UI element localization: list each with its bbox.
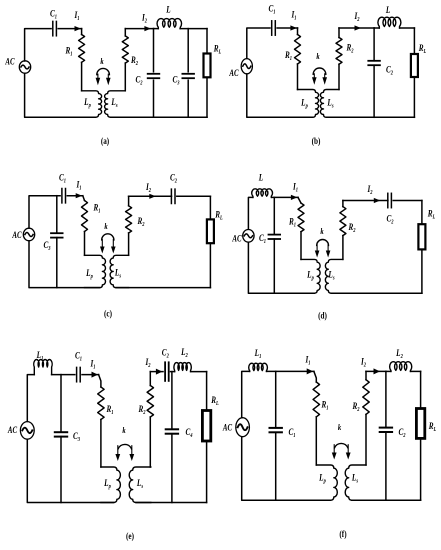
svg-text:k: k xyxy=(104,221,107,231)
wire R2 to C2 with I2 arrow (c) xyxy=(129,195,172,197)
wire C1 to R1 with I1 arrow (e) xyxy=(82,374,99,376)
coupling k (e) xyxy=(118,444,131,448)
circuit (f) xyxy=(222,347,436,539)
wire L1 to C3 node to C1 (e) xyxy=(52,374,75,376)
AC source V1 (c) xyxy=(23,228,34,241)
wire left rail top (b) xyxy=(247,28,270,58)
current arrow I2 (f) xyxy=(374,368,381,374)
current arrow I2 (c) xyxy=(149,194,156,199)
resistor R1 (c) xyxy=(83,196,85,201)
load resistor RL (b) xyxy=(413,28,415,54)
coupling k (d) xyxy=(317,240,329,246)
wire C2 to right rail (d) xyxy=(393,200,422,202)
wire C2 to C4 node (e) xyxy=(171,371,175,373)
resistor R1 (f) xyxy=(314,371,316,382)
current arrow I1 (f) xyxy=(307,368,314,374)
coupling k (f) xyxy=(335,443,348,447)
wire C1 to R1 with I1 arrow (a) xyxy=(58,28,81,30)
wire left rail bottom (e) xyxy=(27,439,113,502)
inductor L1 (f) xyxy=(249,363,268,371)
wire R2 to C2 node with I2 arrow (b) xyxy=(339,27,374,29)
load resistor RL (c) xyxy=(209,196,211,219)
svg-text:k: k xyxy=(338,422,341,432)
capacitor C4 shunt branch (e) xyxy=(171,372,173,430)
wire C2 node to L (a) xyxy=(154,28,159,30)
current arrow I2 (a) xyxy=(144,26,151,31)
wire R2 to C2 with I2 arrow (d) xyxy=(343,200,388,202)
secondary bottom wire (c) xyxy=(116,287,210,289)
wire C1 to R1 with I1 arrow (c) xyxy=(67,195,83,197)
svg-text:AC: AC xyxy=(12,230,23,240)
wire left rail bottom (d) xyxy=(248,242,314,293)
capacitor C1 (c) xyxy=(61,189,63,203)
wire L to C1 node to R1 with I1 arrow (d) xyxy=(272,196,298,198)
wire C2 to right rail (c) xyxy=(177,195,211,197)
resistor R2 (e) xyxy=(149,372,151,386)
svg-text:k: k xyxy=(122,425,125,435)
AC source V1 (d) xyxy=(243,230,254,243)
secondary coil Ls (a) xyxy=(105,91,126,117)
resistor R2 (c) xyxy=(128,196,130,206)
AC source V1 (b) xyxy=(241,59,252,74)
wire left rail top (d) xyxy=(248,197,253,229)
capacitor C3 shunt branch (a) xyxy=(187,29,189,72)
AC source V1 (f) xyxy=(236,418,250,437)
svg-text:AC: AC xyxy=(232,234,243,244)
load resistor RL (d) xyxy=(421,201,423,225)
capacitor C3 shunt branch (e) xyxy=(60,375,62,433)
secondary coil Ls (c) xyxy=(110,255,129,287)
secondary coil Ls (b) xyxy=(320,90,339,118)
inductor L (b) xyxy=(378,17,401,28)
resistor R2 (f) xyxy=(365,371,367,379)
wire left rail bottom (f) xyxy=(242,437,331,500)
circuit (a) xyxy=(5,4,222,146)
capacitor C2 shunt branch (f) xyxy=(385,371,387,427)
inductor L2 (f) xyxy=(390,362,412,372)
current arrow I1 (d) xyxy=(291,195,298,200)
svg-text:k: k xyxy=(316,51,319,61)
svg-text:(b): (b) xyxy=(312,136,321,146)
wire R2 to C2 node with I2 arrow (f) xyxy=(366,370,386,372)
secondary coil Ls (f) xyxy=(345,465,366,500)
load resistor RL (f) xyxy=(420,371,422,408)
svg-text:L: L xyxy=(385,5,390,15)
capacitor C2 (e) xyxy=(164,362,166,381)
secondary bottom wire (d) xyxy=(331,292,422,294)
wire C1 to R1 with I1 arrow (b) xyxy=(277,27,297,29)
secondary bottom wire (e) xyxy=(136,502,207,504)
wire R2 to C2 node with I2 arrow (a) xyxy=(125,28,153,30)
circuit (d) xyxy=(232,172,436,321)
primary coil Lp (a) xyxy=(82,91,102,117)
AC source V1 (a) xyxy=(19,61,30,73)
current arrow I1 (b) xyxy=(290,25,297,30)
AC source V1 (e) xyxy=(20,422,34,440)
current arrow I1 (c) xyxy=(76,193,83,198)
capacitor C3 shunt branch (c) xyxy=(56,196,58,234)
load resistor RL (e) xyxy=(206,372,208,411)
circuit (b) xyxy=(229,3,427,146)
wire L1 to C1 node to R1 with I1 arrow (f) xyxy=(267,370,314,372)
inductor L2 (e) xyxy=(174,363,191,372)
inductor L (a) xyxy=(157,19,181,29)
capacitor C2 (c) xyxy=(170,189,172,203)
resistor R2 (d) xyxy=(342,201,344,207)
current arrow I2 (d) xyxy=(374,198,381,203)
capacitor C1 shunt branch (f) xyxy=(275,371,277,427)
current arrow I2 (b) xyxy=(355,25,362,30)
capacitor C1 (e) xyxy=(76,367,78,381)
wire left rail bottom (a) xyxy=(25,73,96,117)
wire left rail bottom (c) xyxy=(29,241,100,288)
resistor R1 (d) xyxy=(298,197,301,203)
svg-text:k: k xyxy=(320,226,323,236)
svg-text:AC: AC xyxy=(5,57,16,67)
wire C2 node to L2 (f) xyxy=(386,370,391,372)
wire left rail top (a) xyxy=(25,29,51,61)
svg-text:L: L xyxy=(258,172,263,183)
primary coil Lp (e) xyxy=(101,467,121,503)
capacitor C2 shunt branch (a) xyxy=(153,29,155,72)
svg-text:(c): (c) xyxy=(104,309,112,319)
coupling k (b) xyxy=(313,68,326,74)
svg-text:(d): (d) xyxy=(318,311,327,321)
capacitor C1 shunt branch (d) xyxy=(273,197,275,234)
resistor R1 (e) xyxy=(99,375,101,387)
capacitor C1 (b) xyxy=(271,21,273,35)
circuit (c) xyxy=(12,172,223,319)
svg-text:AC: AC xyxy=(229,68,240,78)
capacitor C2 (d) xyxy=(387,193,389,207)
wire R2 to C2 with I2 arrow (e) xyxy=(150,371,163,373)
svg-text:k: k xyxy=(100,56,103,66)
coupling k (a) xyxy=(97,68,110,74)
svg-text:AC: AC xyxy=(222,423,233,433)
svg-text:(e): (e) xyxy=(126,531,134,541)
load resistor RL (a) xyxy=(206,29,208,54)
secondary bottom wire (f) xyxy=(352,499,421,501)
wire left rail top (e) xyxy=(27,375,34,422)
wire left rail bottom (b) xyxy=(247,74,313,117)
wire C2 node to L (b) xyxy=(374,27,379,29)
secondary bottom wire (b) xyxy=(327,116,415,118)
wire L to right rail (b) xyxy=(400,27,415,29)
wire L2 to right rail (f) xyxy=(411,370,421,372)
wire left rail top (c) xyxy=(29,196,60,228)
current arrow I1 (e) xyxy=(92,372,99,378)
svg-text:L: L xyxy=(165,4,170,15)
circuit (e) xyxy=(7,346,219,541)
current arrow I2 (e) xyxy=(156,369,163,375)
svg-text:AC: AC xyxy=(7,425,18,435)
resistor R1 (b) xyxy=(297,28,299,35)
current arrow I1 (a) xyxy=(75,26,82,31)
secondary bottom wire (a) xyxy=(111,116,208,118)
primary coil Lp (d) xyxy=(301,259,320,293)
primary coil Lp (f) xyxy=(316,465,337,500)
secondary coil Ls (d) xyxy=(325,259,343,293)
wire L to right rail (a) xyxy=(180,28,207,30)
inductor L1 (e) xyxy=(34,359,52,374)
secondary coil Ls (e) xyxy=(129,467,151,503)
coupling k (c) xyxy=(102,234,114,240)
wire L2 to right rail (e) xyxy=(191,371,207,373)
svg-text:(a): (a) xyxy=(101,136,110,146)
capacitor C2 shunt branch (b) xyxy=(373,28,375,61)
resistor R1 (a) xyxy=(81,29,83,35)
svg-text:(f): (f) xyxy=(339,529,346,539)
resistor R2 (b) xyxy=(338,28,340,38)
wire left rail top (f) xyxy=(242,371,250,417)
resistor R2 (a) xyxy=(124,29,126,36)
primary coil Lp (c) xyxy=(85,255,106,287)
inductor L (d) xyxy=(252,189,273,198)
capacitor C1 (a) xyxy=(52,21,54,35)
primary coil Lp (b) xyxy=(298,90,319,118)
